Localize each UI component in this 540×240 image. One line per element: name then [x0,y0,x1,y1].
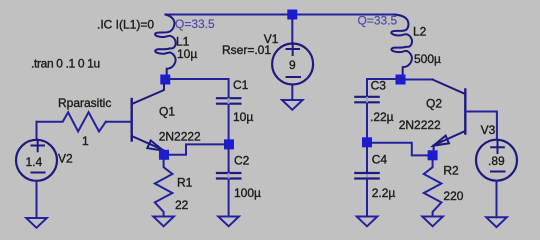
V1 plus [287,43,300,55]
svg-text:.IC I(L1)=0: .IC I(L1)=0 [97,18,154,32]
V3 minus [491,171,505,173]
wire V1 top lead [291,15,293,45]
svg-text:2.2µ: 2.2µ [372,186,396,200]
capacitor C4 [355,173,378,179]
capacitor C1 faint mid lead [228,99,230,103]
voltage source V1 [272,44,313,85]
svg-text:2N2222: 2N2222 [159,130,201,144]
svg-text:220: 220 [443,189,463,203]
svg-text:V1: V1 [264,32,279,46]
wire C3 top lead [366,79,368,97]
wire V2 bottom lead [36,181,38,218]
svg-text:Q2: Q2 [426,97,442,111]
junction Q1 emitter [159,150,169,160]
svg-text:22: 22 [175,198,189,212]
wire C3 top link [367,78,401,80]
junction C3/C4/base wire [362,137,372,147]
transistor Q1 [132,84,164,155]
inductor L2 [391,15,412,76]
V1 minus [287,76,301,78]
transistor Q2 [433,80,466,156]
svg-text:.22µ: .22µ [370,110,394,124]
V3 plus [491,142,504,154]
svg-text:10µ: 10µ [233,110,253,124]
wire V1 bottom lead [291,85,293,101]
wire base step run [367,143,433,156]
wire C4 bottom lead [366,180,368,217]
svg-text:L2: L2 [413,25,427,39]
svg-text:2N2222: 2N2222 [399,118,441,132]
capacitor C3 [355,97,378,103]
svg-text:V3: V3 [481,123,496,137]
junction L1 / Q1 collector / C1 rail [160,75,170,85]
V2 minus [32,172,45,174]
junction C1/C2/emitter wire [224,139,234,149]
svg-text:C1: C1 [233,78,249,92]
wire C1 bottom lead [228,105,230,145]
svg-text:C4: C4 [372,153,388,167]
ground below V2 [26,218,47,228]
svg-text:R2: R2 [443,164,459,178]
svg-text:V2: V2 [58,152,73,166]
svg-text:R1: R1 [177,176,193,190]
svg-text:100µ: 100µ [234,186,261,200]
wire C2 top lead [228,144,230,172]
ground below V1 [282,100,303,110]
wire C3 bottom lead [366,103,368,142]
svg-text:Q=33.5: Q=33.5 [358,14,398,28]
resistor R1 [155,155,173,216]
wire V2 top lead [36,122,38,140]
capacitor C1 [217,98,240,104]
V2 plus [32,140,45,152]
ground below C4 [357,217,378,227]
wire C4 top lead [366,147,368,173]
svg-text:.tran 0 .1 0 1u: .tran 0 .1 0 1u [31,57,100,71]
ground below C2 [218,217,239,227]
svg-text:Q1: Q1 [159,105,175,119]
wire top rail [166,14,396,16]
junction L2 / C3 / Q2 collector [396,75,406,85]
capacitor C3 faint mid lead [366,98,368,102]
voltage source V2 [16,140,57,181]
wire C2 bottom lead [228,180,230,217]
ground below V3 [486,217,507,227]
capacitor C4 faint mid lead [366,174,368,178]
capacitor C2 [217,173,240,179]
ground below R1 [153,217,174,227]
wire emitter step run [168,144,229,154]
svg-text:Rparasitic: Rparasitic [58,96,111,110]
wire Q2 collector link [401,79,433,81]
svg-text:C3: C3 [371,79,387,93]
svg-text:1: 1 [82,134,89,148]
inductor L1 [155,15,176,76]
voltage source V3 [476,140,517,181]
svg-text:.89: .89 [488,154,505,168]
resistor Rparasitic [37,112,106,131]
svg-text:1.4: 1.4 [26,155,43,169]
wire Q1 base [106,121,132,123]
wire collector rail to C1 [165,79,228,98]
capacitor C2 faint mid lead [228,174,230,178]
svg-text:500µ: 500µ [414,52,441,66]
svg-text:C2: C2 [234,154,250,168]
ground below R2 [422,217,443,227]
junction top rail / V1 [287,10,297,20]
wire V3 bottom lead [496,181,498,217]
svg-text:9: 9 [289,58,296,72]
junction Q2 emitter [428,150,438,160]
svg-text:10µ: 10µ [177,47,197,61]
wire Q2 base to V3 [465,112,497,140]
svg-text:Q=33.5: Q=33.5 [175,17,215,31]
resistor R2 [424,155,442,215]
